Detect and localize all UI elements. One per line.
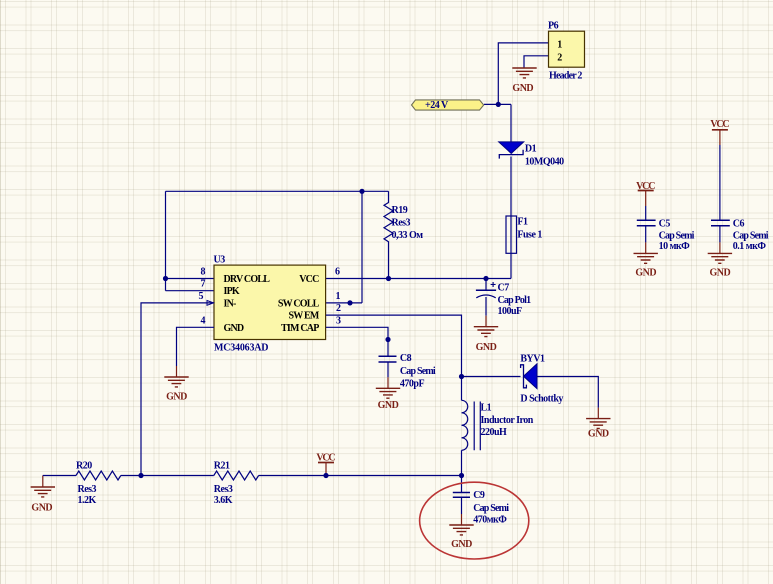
wire pin 7 stub	[166, 290, 215, 292]
node junction C8	[385, 337, 390, 342]
svg-text:IPK: IPK	[224, 286, 240, 297]
svg-text:IN-: IN-	[224, 298, 237, 309]
svg-text:GND: GND	[31, 503, 52, 514]
capacitor C7 Cap Pol1	[476, 279, 531, 317]
svg-text:D1: D1	[525, 143, 537, 154]
wire to BYV1	[462, 376, 521, 378]
wire R21 to C9 node	[259, 475, 462, 477]
node junction pin1	[347, 300, 352, 305]
node junction +24V	[496, 102, 501, 107]
power port VCC mid	[316, 453, 335, 476]
svg-text:GND: GND	[476, 342, 497, 353]
wire VCC to C5	[645, 206, 647, 220]
wire VCC pin 6 rail	[326, 278, 511, 280]
svg-text:1: 1	[557, 40, 562, 51]
wire C9 to GND	[461, 497, 463, 514]
svg-text:0,33 Ом: 0,33 Ом	[392, 230, 424, 241]
svg-text:1: 1	[336, 291, 341, 302]
wire VCC to C6	[719, 145, 721, 220]
svg-text:C6: C6	[733, 218, 745, 229]
node junction C9 tap	[459, 473, 464, 478]
svg-text:Cap Semi: Cap Semi	[400, 366, 436, 377]
svg-text:D Schottky: D Schottky	[520, 394, 563, 405]
svg-text:10MQ040: 10MQ040	[525, 157, 564, 168]
svg-text:GND: GND	[166, 391, 187, 402]
capacitor C8 Cap Semi 470pF	[379, 353, 436, 389]
svg-text:Res3: Res3	[392, 218, 411, 229]
resistor R19	[384, 191, 423, 278]
svg-text:1.2K: 1.2K	[78, 495, 97, 506]
svg-text:VCC: VCC	[316, 453, 335, 464]
svg-text:2: 2	[336, 303, 341, 314]
svg-text:Res3: Res3	[214, 484, 233, 495]
node junction C7 tap	[483, 276, 488, 281]
wire P6 pin1 vertical	[498, 43, 548, 105]
svg-text:+24 V: +24 V	[425, 100, 449, 111]
svg-text:Header 2: Header 2	[549, 71, 582, 82]
wire SW COLL feedback vertical	[361, 191, 363, 303]
svg-text:VCC: VCC	[299, 274, 319, 285]
svg-text:6: 6	[335, 267, 340, 278]
wire pin 2 SW EM net	[326, 315, 462, 376]
diode BYV1 D Schottky	[520, 353, 563, 404]
svg-text:470pF: 470pF	[400, 378, 425, 389]
svg-text:Cap Semi: Cap Semi	[659, 230, 695, 241]
fuse F1	[506, 216, 542, 253]
ground GND at C9	[449, 514, 473, 550]
wire pin 1 stub	[326, 302, 362, 304]
wire pin 3 TIM CAP to C8	[326, 327, 388, 355]
svg-text:GND: GND	[378, 400, 399, 411]
diode D1 10MQ040	[499, 142, 564, 168]
svg-text:VCC: VCC	[710, 119, 729, 130]
node junction pin8 tee	[163, 276, 168, 281]
svg-text:C8: C8	[400, 353, 412, 364]
wire top feedback rail	[166, 190, 389, 192]
connector P6 Header 2	[548, 21, 585, 82]
svg-text:R21: R21	[214, 461, 230, 472]
wire C5 to GND	[645, 226, 647, 243]
ground GND at P6	[512, 68, 536, 94]
pin 5 IN- arrow	[207, 301, 214, 306]
svg-text:GND: GND	[588, 429, 609, 440]
wire C6 to GND	[719, 226, 721, 243]
wire P6 pin2 to GND	[524, 56, 549, 68]
inductor L1	[462, 400, 534, 450]
svg-text:Cap Pol1: Cap Pol1	[498, 295, 532, 306]
power port +24V	[412, 100, 484, 111]
resistor R21	[214, 461, 259, 507]
wire C7 to GND	[485, 297, 487, 316]
svg-text:SW COLL: SW COLL	[278, 298, 320, 309]
svg-text:220uH: 220uH	[481, 427, 508, 438]
node junction VCC tap	[323, 473, 328, 478]
node junction top rail	[359, 189, 364, 194]
svg-text:Cap Semi: Cap Semi	[473, 503, 509, 514]
capacitor C5 Cap Semi 10mkF	[637, 218, 695, 252]
power port VCC at C5	[636, 181, 655, 206]
wire fuse bottom lead	[510, 216, 512, 279]
wire BYV1 cathode to GND	[537, 377, 598, 408]
svg-text:7: 7	[201, 279, 206, 290]
ground GND at C6	[708, 242, 732, 278]
svg-text:3.6K: 3.6K	[214, 495, 233, 506]
ground GND at C5	[634, 242, 658, 278]
svg-text:8: 8	[201, 267, 206, 278]
svg-text:GND: GND	[451, 539, 472, 550]
svg-text:10 мкФ: 10 мкФ	[659, 241, 691, 252]
svg-text:C7: C7	[498, 282, 510, 293]
svg-text:BYV1: BYV1	[520, 353, 545, 364]
wire IN- net	[141, 303, 214, 476]
svg-text:GND: GND	[710, 268, 731, 279]
svg-text:470мкФ: 470мкФ	[473, 514, 507, 525]
svg-text:GND: GND	[512, 83, 533, 94]
ground GND at BYV1	[586, 408, 610, 440]
capacitor C6 Cap Semi 0.1mkF	[711, 218, 769, 252]
svg-text:P6: P6	[548, 21, 559, 32]
svg-text:Cap Semi: Cap Semi	[733, 230, 769, 241]
wire GND to R20	[43, 475, 76, 477]
svg-text:Inductor Iron: Inductor Iron	[481, 415, 534, 426]
svg-text:Fuse 1: Fuse 1	[517, 229, 542, 240]
svg-text:2: 2	[557, 52, 562, 63]
wire L1 bottom lead	[461, 450, 463, 475]
svg-text:Res3: Res3	[78, 484, 97, 495]
svg-text:C9: C9	[473, 490, 485, 501]
svg-text:100uF: 100uF	[498, 306, 523, 317]
ground GND at C8	[376, 377, 400, 411]
wire fuse top to D1	[510, 157, 512, 217]
svg-text:5: 5	[199, 291, 204, 302]
node junction divider	[138, 473, 143, 478]
svg-text:4: 4	[201, 315, 206, 326]
svg-text:U3: U3	[214, 255, 226, 266]
svg-text:C5: C5	[659, 218, 671, 229]
wire L1 top lead	[461, 377, 463, 401]
capacitor C9 Cap Semi 470mkF	[453, 476, 509, 526]
ground GND at C7	[474, 316, 498, 353]
resistor R20	[76, 461, 121, 507]
svg-text:R20: R20	[76, 461, 92, 472]
wire +24V horizontal	[484, 103, 511, 105]
svg-text:SW EM: SW EM	[289, 311, 320, 322]
svg-text:TIM CAP: TIM CAP	[281, 323, 319, 334]
svg-text:R19: R19	[392, 205, 408, 216]
wire C8 to GND	[387, 362, 389, 377]
node junction R19 bottom	[386, 276, 391, 281]
annotation red ellipse around C9	[420, 482, 529, 559]
wire left feedback vertical	[165, 191, 167, 290]
svg-text:0.1 мкФ: 0.1 мкФ	[733, 241, 767, 252]
svg-text:GND: GND	[224, 323, 244, 334]
ground GND at pin 4	[164, 366, 188, 402]
wire pin 8 stub	[166, 278, 215, 280]
svg-text:3: 3	[336, 315, 341, 326]
op-amp U3 MC34063AD	[199, 255, 342, 354]
power port VCC at C6	[710, 119, 729, 145]
svg-text:MC34063AD: MC34063AD	[214, 343, 268, 354]
svg-text:GND: GND	[635, 268, 656, 279]
ground GND at R20	[31, 476, 55, 514]
node junction inductor top	[459, 374, 464, 379]
wire R20 to R21	[121, 475, 214, 477]
wire D1 top to +24V node	[510, 104, 512, 141]
svg-text:F1: F1	[517, 217, 528, 228]
svg-text:L1: L1	[481, 403, 492, 414]
wire pin 4 to GND	[177, 327, 215, 366]
svg-text:DRV COLL: DRV COLL	[224, 274, 271, 285]
